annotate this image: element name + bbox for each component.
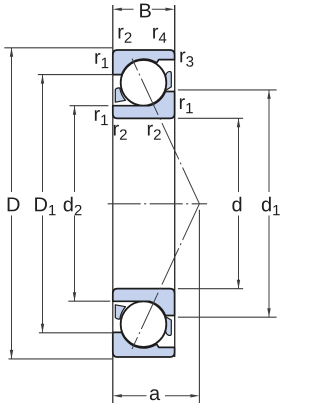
bearing cross-section, bottom half (vertical mirror of top) xyxy=(113,289,175,357)
label r3 right xyxy=(180,52,193,67)
label r4 top-right xyxy=(153,28,166,43)
a dimension line with outward arrows xyxy=(118,395,147,397)
d2 dimension line xyxy=(74,106,76,192)
D1 extension line bottom xyxy=(39,332,113,334)
d2 extension line bottom xyxy=(68,300,110,302)
d2 extension line top xyxy=(70,105,109,107)
D1 extension line top xyxy=(38,74,113,76)
d1 extension line top xyxy=(178,89,277,91)
label B xyxy=(140,4,151,18)
d1 extension line bottom xyxy=(178,316,277,318)
label r1 right-middle xyxy=(180,98,193,113)
dimension line B with outward arrows xyxy=(117,8,134,10)
horizontal axis centerline xyxy=(108,203,207,205)
right face line xyxy=(174,5,176,357)
contact angle line upper xyxy=(132,59,199,204)
d1 dimension line xyxy=(268,90,270,192)
cage segment left xyxy=(115,88,125,102)
cage segment right xyxy=(165,72,171,90)
label d2 xyxy=(64,197,82,215)
d extension line bottom xyxy=(178,288,243,290)
d dimension line xyxy=(238,118,240,192)
label D xyxy=(8,198,20,212)
label r1 left-middle xyxy=(95,110,108,125)
contact angle line lower xyxy=(132,204,199,349)
D extension line bottom xyxy=(9,358,113,360)
label r2 below-middle xyxy=(148,125,161,140)
D extension line top xyxy=(4,47,113,49)
D dimension line xyxy=(11,48,13,192)
label d1 xyxy=(262,197,280,215)
label d xyxy=(232,197,241,212)
inner ring (top section) xyxy=(113,92,175,119)
label a xyxy=(150,389,160,400)
ball xyxy=(121,60,167,106)
D1 dimension line xyxy=(42,75,44,192)
label r2 top-left xyxy=(119,28,132,43)
label r1 left-top xyxy=(95,53,108,68)
left face line xyxy=(112,5,114,403)
d extension line top xyxy=(178,117,243,119)
label D1 xyxy=(35,198,55,216)
label r2 below-left xyxy=(114,125,127,140)
apex extension line down to a-dimension xyxy=(198,210,200,403)
outer ring (top section) xyxy=(113,50,175,75)
